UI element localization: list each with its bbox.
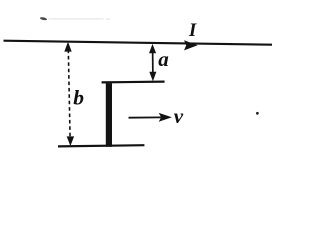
dark dash artifact top-left [40, 17, 48, 21]
svg-text:b: b [73, 85, 84, 109]
svg-text:v: v [174, 104, 184, 128]
dimension b arrow (dashed, double-headed) [64, 42, 74, 146]
current direction arrowhead [184, 40, 198, 50]
dimension a arrow (double-headed) [149, 44, 156, 81]
svg-text:a: a [158, 47, 169, 71]
stray dot artifact [256, 112, 259, 115]
velocity arrow v [129, 113, 172, 122]
sliding rod (thick bar) [106, 83, 112, 147]
bottom rail [58, 145, 144, 146]
top rail [102, 80, 165, 83]
wire (long straight wire carrying current I) [4, 41, 273, 45]
svg-text:I: I [188, 20, 197, 41]
faint scan smudge line top-left [49, 18, 104, 19]
